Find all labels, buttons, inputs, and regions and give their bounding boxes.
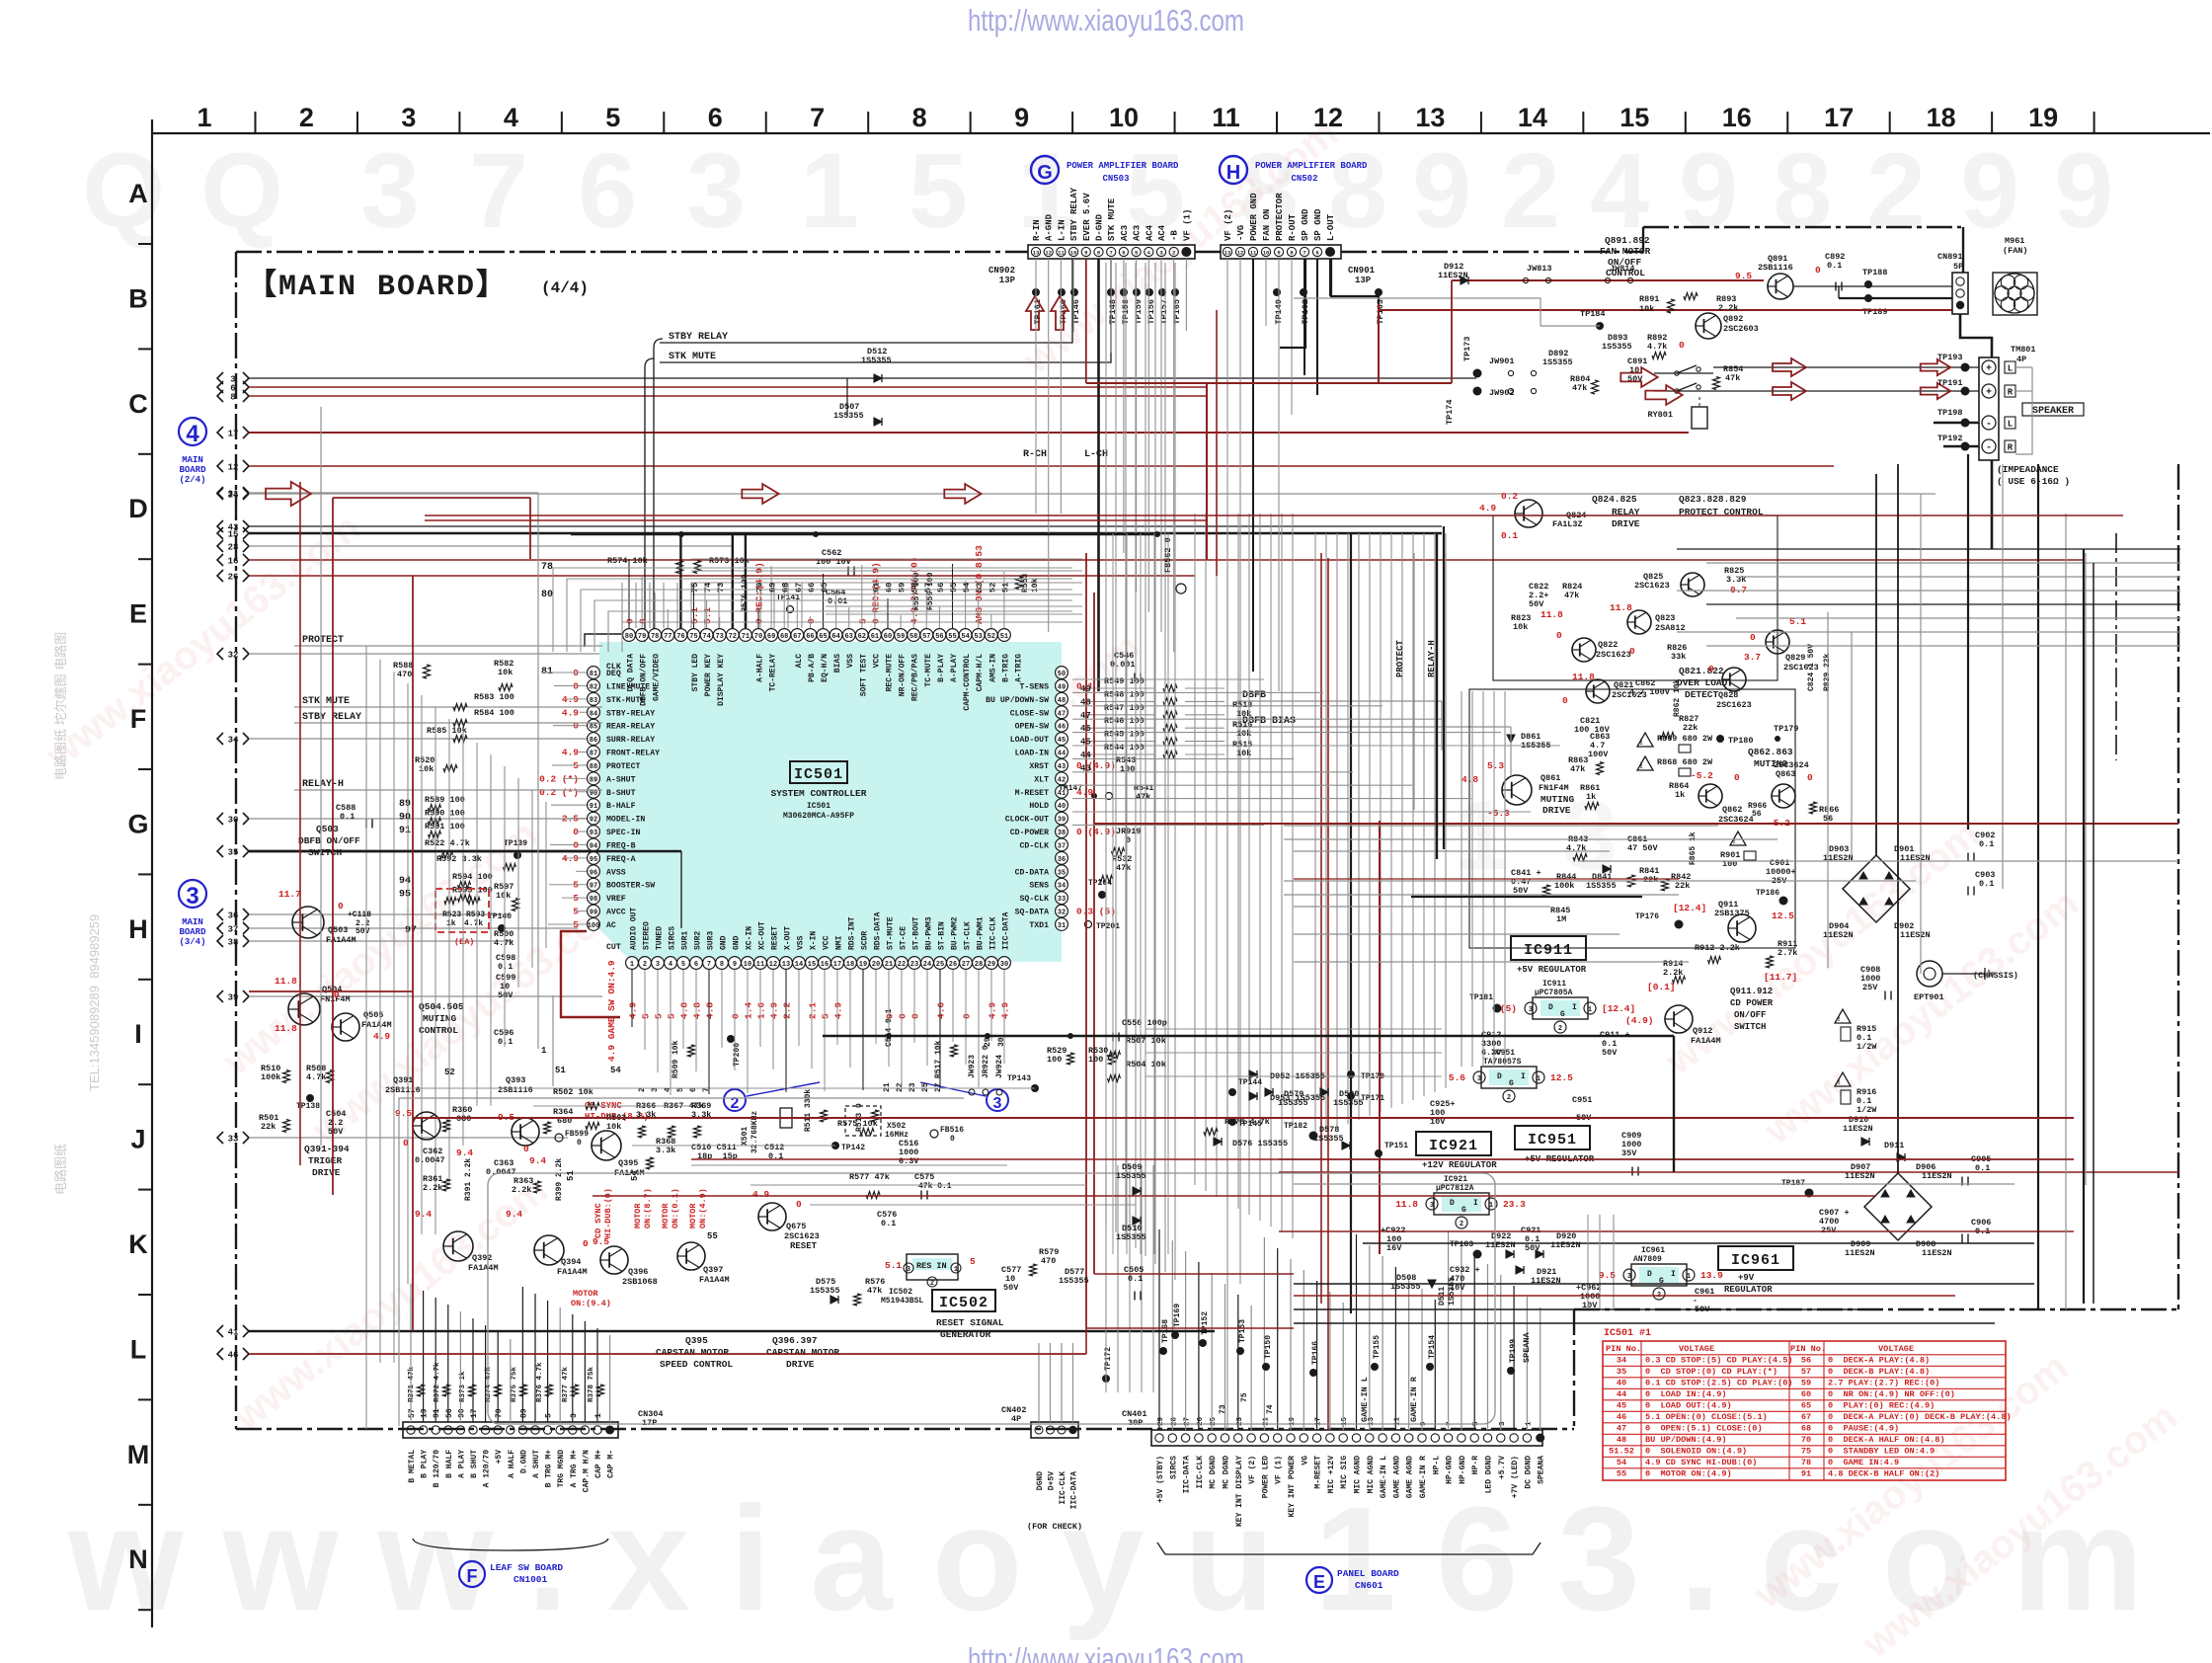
svg-text:RDS-INT: RDS-INT bbox=[848, 916, 857, 950]
svg-text:3: 3 bbox=[656, 961, 660, 969]
svg-text:SIRCS: SIRCS bbox=[1169, 1456, 1178, 1479]
svg-text:F: F bbox=[467, 1566, 478, 1586]
svg-text:6: 6 bbox=[1122, 250, 1125, 257]
svg-text:X502: X502 bbox=[887, 1122, 906, 1131]
svg-text:0: 0 bbox=[1679, 340, 1685, 351]
svg-text:91: 91 bbox=[590, 803, 597, 811]
IC911 label box bbox=[1511, 936, 1586, 960]
svg-text:50V: 50V bbox=[355, 927, 370, 936]
svg-text:STK MUTE: STK MUTE bbox=[1107, 198, 1117, 241]
svg-text:15: 15 bbox=[1619, 103, 1649, 132]
transistor Q396 2SB1068 bbox=[600, 1246, 628, 1274]
svg-text:0.1: 0.1 bbox=[498, 1037, 513, 1047]
svg-text:0.0047: 0.0047 bbox=[415, 1155, 445, 1165]
test points above CN401 bbox=[1102, 1304, 1518, 1383]
svg-text:STBY RELAY: STBY RELAY bbox=[302, 712, 361, 723]
svg-text:A: A bbox=[128, 179, 148, 208]
svg-text:B-PLAY: B-PLAY bbox=[937, 654, 946, 682]
svg-text:ON/OFF: ON/OFF bbox=[1608, 257, 1642, 268]
svg-text:38: 38 bbox=[1058, 830, 1066, 837]
svg-text:47k: 47k bbox=[1725, 373, 1740, 383]
IC501 pin circles top row 80-51 bbox=[623, 629, 1011, 642]
test points TP180 TP179 bbox=[1716, 735, 1724, 743]
svg-text:59: 59 bbox=[1801, 1379, 1811, 1388]
svg-text:97: 97 bbox=[590, 883, 597, 891]
IC951 label box bbox=[1515, 1126, 1590, 1149]
svg-text:5: 5 bbox=[545, 1413, 554, 1418]
connector CN902 pin labels bbox=[1032, 187, 1192, 241]
svg-text:0.1: 0.1 bbox=[1827, 261, 1842, 271]
svg-text:0: 0 bbox=[1708, 664, 1714, 674]
svg-text:VCC: VCC bbox=[823, 935, 831, 950]
svg-text:3.7: 3.7 bbox=[1744, 652, 1761, 663]
svg-text:9.4: 9.4 bbox=[506, 1209, 522, 1220]
svg-text:Q861: Q861 bbox=[1540, 773, 1560, 783]
svg-text:45: 45 bbox=[1617, 1401, 1626, 1411]
svg-text:-5.3: -5.3 bbox=[1487, 808, 1510, 819]
svg-text:B PLAY: B PLAY bbox=[421, 1450, 430, 1478]
svg-text:Q393: Q393 bbox=[506, 1075, 525, 1085]
svg-text:2.2k: 2.2k bbox=[423, 1183, 442, 1193]
test point TP184 bbox=[1596, 322, 1604, 330]
svg-text:100k: 100k bbox=[1554, 881, 1574, 891]
svg-text:55: 55 bbox=[948, 633, 956, 641]
svg-text:21: 21 bbox=[885, 961, 893, 969]
svg-text:TP204: TP204 bbox=[1088, 879, 1112, 888]
svg-text:11ES2N: 11ES2N bbox=[1550, 1240, 1581, 1250]
IC501 pin circles right column 50-31 bbox=[1056, 667, 1068, 931]
test point TP186 bbox=[1779, 897, 1788, 906]
svg-text:AVCC: AVCC bbox=[606, 909, 626, 917]
wire dark red corner at x418 bbox=[412, 576, 414, 991]
transistor Q825 2SC1623 bbox=[1681, 573, 1704, 596]
svg-text:2SC1623: 2SC1623 bbox=[784, 1231, 820, 1241]
svg-text:IC501 #1: IC501 #1 bbox=[1604, 1328, 1651, 1339]
main board outline right bbox=[2177, 464, 2179, 1309]
svg-text:FREQ-A: FREQ-A bbox=[606, 855, 636, 864]
svg-text:STBY RELAY: STBY RELAY bbox=[669, 332, 728, 343]
resistors R589 R590 R591 100 with pin numbers bbox=[399, 795, 465, 837]
IC921 label box bbox=[1416, 1132, 1491, 1155]
svg-text:9: 9 bbox=[1412, 130, 1471, 250]
svg-text:7: 7 bbox=[1303, 250, 1305, 257]
panel board brace bbox=[1157, 1543, 1540, 1554]
svg-text:DETECT: DETECT bbox=[1685, 689, 1719, 700]
svg-text:+7V (LED): +7V (LED) bbox=[1511, 1456, 1520, 1498]
svg-text:VSS: VSS bbox=[797, 935, 806, 950]
svg-text:MOTOR: MOTOR bbox=[633, 1203, 643, 1228]
svg-text:5: 5 bbox=[908, 130, 968, 250]
svg-text:40: 40 bbox=[1058, 803, 1066, 811]
svg-text:3: 3 bbox=[1627, 1273, 1631, 1281]
svg-text:Q392: Q392 bbox=[472, 1253, 492, 1263]
svg-text:R590 100: R590 100 bbox=[425, 808, 465, 818]
svg-text:RELAY-H: RELAY-H bbox=[302, 779, 344, 790]
svg-text:Q504.505: Q504.505 bbox=[419, 1001, 464, 1012]
jumper JW814 bbox=[1605, 277, 1610, 282]
red wire pair into CN401 zone bbox=[1094, 1273, 1294, 1275]
svg-text:22: 22 bbox=[898, 961, 906, 969]
svg-text:XC-IN: XC-IN bbox=[746, 926, 754, 950]
svg-text:IC921: IC921 bbox=[1429, 1138, 1478, 1154]
svg-text:TP144: TP144 bbox=[1238, 1078, 1262, 1087]
svg-text:CN902: CN902 bbox=[988, 266, 1015, 276]
svg-text:( USE 6-16Ω ): ( USE 6-16Ω ) bbox=[1997, 476, 2070, 487]
svg-text:0 DECK-A PLAY:(0) DECK-B PLAY: 0 DECK-A PLAY:(0) DECK-B PLAY:(4.8) bbox=[1828, 1412, 2012, 1422]
svg-text:TP188: TP188 bbox=[1862, 268, 1888, 277]
svg-text:47 50V: 47 50V bbox=[1627, 843, 1659, 853]
IC501 top red voltages bbox=[625, 545, 986, 624]
svg-text:MODEL-IN: MODEL-IN bbox=[606, 816, 645, 825]
svg-text:R862 10k: R862 10k bbox=[1673, 678, 1682, 717]
svg-text:84: 84 bbox=[590, 710, 597, 718]
svg-text:CN601: CN601 bbox=[1355, 1580, 1383, 1591]
svg-text:6: 6 bbox=[694, 961, 698, 969]
transistor Q505 FA1A4M bbox=[332, 1013, 359, 1041]
svg-text:R517 10k: R517 10k bbox=[934, 1040, 943, 1078]
svg-text:22k: 22k bbox=[1675, 881, 1690, 891]
svg-text:G: G bbox=[1461, 1206, 1466, 1215]
svg-text:78: 78 bbox=[1801, 1458, 1811, 1467]
transistor Q397 FA1A4M bbox=[677, 1242, 705, 1270]
svg-text:1: 1 bbox=[1687, 1273, 1691, 1281]
svg-text:43: 43 bbox=[1058, 763, 1066, 771]
svg-text:95: 95 bbox=[399, 889, 411, 900]
svg-text:TP199: TP199 bbox=[1509, 1339, 1518, 1363]
svg-text:4.7k: 4.7k bbox=[1647, 342, 1667, 352]
SPEAKER boxed label bbox=[2022, 403, 2084, 416]
svg-text:35: 35 bbox=[228, 848, 239, 858]
svg-text:2SB1375: 2SB1375 bbox=[1714, 909, 1750, 918]
svg-text:B: B bbox=[128, 283, 148, 313]
svg-text:5.1 OPEN:(0) CLOSE:(5.1): 5.1 OPEN:(0) CLOSE:(5.1) bbox=[1645, 1412, 1768, 1422]
svg-text:http://www.xiaoyu163.com: http://www.xiaoyu163.com bbox=[968, 3, 1244, 38]
svg-text:4: 4 bbox=[186, 421, 199, 447]
svg-text:7: 7 bbox=[1110, 250, 1113, 257]
svg-text:Q829: Q829 bbox=[1785, 653, 1805, 663]
svg-text:TP189: TP189 bbox=[1862, 307, 1888, 317]
svg-text:1S5355: 1S5355 bbox=[1602, 342, 1632, 352]
svg-text:11.8: 11.8 bbox=[1395, 1199, 1418, 1210]
svg-text:35: 35 bbox=[1617, 1367, 1626, 1377]
IC501 bottom pin labels rotated bbox=[630, 908, 1011, 950]
svg-text:64: 64 bbox=[831, 633, 839, 641]
svg-text:48: 48 bbox=[1058, 697, 1066, 705]
svg-text:CD-CLK: CD-CLK bbox=[1020, 841, 1050, 850]
svg-text:BU UP/DOWN-SW: BU UP/DOWN-SW bbox=[986, 695, 1049, 705]
svg-text:68: 68 bbox=[781, 583, 791, 593]
svg-text:(4.9): (4.9) bbox=[1625, 1015, 1654, 1026]
svg-text:90: 90 bbox=[590, 790, 597, 798]
svg-text:R869 680 2W: R869 680 2W bbox=[1657, 734, 1713, 744]
svg-text:1: 1 bbox=[800, 130, 859, 250]
svg-text:0: 0 bbox=[638, 618, 649, 624]
svg-text:47k: 47k bbox=[1572, 383, 1587, 393]
svg-text:L-CH: L-CH bbox=[1084, 449, 1108, 460]
svg-text:19: 19 bbox=[859, 961, 867, 969]
svg-text:R574 10k: R574 10k bbox=[607, 556, 648, 566]
svg-text:12: 12 bbox=[1045, 250, 1052, 257]
svg-text:CN503: CN503 bbox=[1102, 174, 1129, 184]
svg-text:5: 5 bbox=[641, 1013, 652, 1019]
main board outline bottom right horizontal bbox=[1574, 1308, 2178, 1310]
svg-text:GAME-IN L: GAME-IN L bbox=[1360, 1377, 1370, 1422]
wire dark red riser x337 bbox=[332, 498, 334, 1195]
svg-text:87: 87 bbox=[590, 751, 597, 758]
svg-text:GND: GND bbox=[720, 935, 729, 950]
svg-text:(5): (5) bbox=[1500, 1003, 1517, 1014]
svg-text:13: 13 bbox=[1033, 250, 1040, 257]
svg-text:BOOSTER-SW: BOOSTER-SW bbox=[606, 882, 655, 891]
svg-text:IC951: IC951 bbox=[1528, 1132, 1577, 1148]
svg-text:AC3: AC3 bbox=[1120, 225, 1130, 241]
svg-text:10: 10 bbox=[1109, 103, 1139, 132]
svg-text:Q823: Q823 bbox=[1655, 613, 1675, 623]
svg-text:7: 7 bbox=[707, 961, 711, 969]
svg-text:50V: 50V bbox=[1003, 1283, 1019, 1293]
svg-text:3: 3 bbox=[1430, 1202, 1434, 1210]
svg-text:8: 8 bbox=[720, 961, 724, 969]
svg-text:D: D bbox=[1647, 1270, 1652, 1279]
svg-text:0: 0 bbox=[1815, 265, 1821, 276]
svg-text:4.6: 4.6 bbox=[936, 1002, 947, 1019]
svg-text:R: R bbox=[2008, 388, 2014, 398]
svg-text:MUTING: MUTING bbox=[423, 1013, 457, 1024]
svg-text:BIAS: BIAS bbox=[833, 654, 842, 673]
badge 2 blue bbox=[724, 1089, 746, 1111]
svg-text:2SB1116: 2SB1116 bbox=[1758, 263, 1793, 273]
regulator IC921 uPC7812A bbox=[1434, 1193, 1489, 1215]
svg-text:61: 61 bbox=[871, 633, 879, 641]
svg-text:2: 2 bbox=[1558, 1025, 1562, 1033]
svg-text:TP171: TP171 bbox=[1361, 1094, 1384, 1103]
frame top horizontal line bbox=[152, 132, 2210, 134]
svg-text:VSS: VSS bbox=[846, 654, 855, 669]
svg-text:37: 37 bbox=[1058, 842, 1066, 850]
left margin faint vertical text bbox=[53, 632, 102, 1195]
faint watermark www bottom bbox=[67, 1475, 2183, 1641]
transistor Q395 FA1A4M bbox=[592, 1131, 621, 1160]
svg-text:90: 90 bbox=[399, 812, 411, 823]
svg-text:R595 100: R595 100 bbox=[452, 885, 493, 895]
svg-text:POWER GND: POWER GND bbox=[1249, 193, 1259, 241]
regulator IC951 TA78057S bbox=[1481, 1067, 1537, 1088]
wire dark red extra D rows bbox=[425, 515, 2123, 516]
svg-text:FA1A4M: FA1A4M bbox=[699, 1275, 730, 1285]
svg-text:0: 0 bbox=[583, 1238, 589, 1249]
svg-text:8: 8 bbox=[1773, 130, 1832, 250]
svg-text:4.9 CD SYNC HI-DUB:(0): 4.9 CD SYNC HI-DUB:(0) bbox=[1645, 1458, 1757, 1467]
wires above CN304 bbox=[411, 1284, 610, 1422]
svg-text:100k: 100k bbox=[261, 1072, 280, 1082]
svg-text:TP182: TP182 bbox=[1284, 1122, 1307, 1131]
svg-text:DISPLAY KEY: DISPLAY KEY bbox=[717, 654, 726, 706]
svg-text:FREQ-B: FREQ-B bbox=[606, 841, 636, 850]
svg-text:R372 4.7k: R372 4.7k bbox=[434, 1362, 441, 1402]
svg-text:Q395: Q395 bbox=[618, 1158, 638, 1168]
transistor Q828 2SC1623 bbox=[1722, 668, 1746, 691]
svg-text:25V: 25V bbox=[1862, 983, 1878, 992]
svg-text:5: 5 bbox=[605, 103, 620, 132]
svg-text:16: 16 bbox=[228, 557, 239, 567]
svg-text:37: 37 bbox=[228, 925, 239, 935]
svg-text:Q396: Q396 bbox=[628, 1267, 648, 1277]
svg-text:49: 49 bbox=[1058, 683, 1066, 691]
svg-text:34: 34 bbox=[1058, 883, 1066, 891]
svg-text:AC: AC bbox=[606, 921, 616, 930]
svg-text:A PLAY: A PLAY bbox=[457, 1450, 466, 1478]
svg-text:5.1: 5.1 bbox=[885, 1260, 902, 1271]
test point TP142 bbox=[831, 1142, 839, 1149]
bus loops above IC501 bbox=[553, 568, 1072, 652]
svg-text:TP166: TP166 bbox=[1311, 1341, 1320, 1365]
bridge rectifier D906 D907 D908 D909 11ES2N bbox=[1845, 1162, 1952, 1258]
svg-text:2SC1623: 2SC1623 bbox=[1634, 581, 1670, 591]
svg-text:GND: GND bbox=[733, 935, 742, 950]
svg-text:I: I bbox=[1521, 1072, 1526, 1081]
svg-text:100: 100 bbox=[588, 922, 600, 930]
wire bottom red long to right bbox=[412, 991, 414, 1331]
svg-text:11.8: 11.8 bbox=[275, 976, 297, 987]
main board outline top jog vertical bbox=[1642, 227, 1644, 252]
svg-text:10k: 10k bbox=[606, 1122, 621, 1132]
svg-text:IC961: IC961 bbox=[1641, 1246, 1665, 1255]
svg-text:SPEC-IN: SPEC-IN bbox=[606, 829, 640, 837]
transistor Q892 2SC2603 bbox=[1696, 313, 1721, 339]
svg-text:VOLTAGE: VOLTAGE bbox=[1679, 1344, 1714, 1354]
svg-text:2SB1068: 2SB1068 bbox=[622, 1277, 658, 1287]
svg-text:X-IN: X-IN bbox=[810, 931, 819, 950]
svg-text:13: 13 bbox=[1224, 250, 1231, 257]
svg-text:1S5355: 1S5355 bbox=[1059, 1276, 1089, 1286]
svg-text:75: 75 bbox=[690, 583, 700, 593]
svg-text:R584 100: R584 100 bbox=[474, 708, 514, 718]
svg-text:6: 6 bbox=[578, 130, 637, 250]
svg-text:9.4: 9.4 bbox=[415, 1209, 432, 1220]
warning triangle resistors R869 R868 680 2W bbox=[1637, 733, 1653, 747]
main board outline left bbox=[235, 252, 237, 1429]
svg-text:B HALF: B HALF bbox=[445, 1450, 454, 1478]
IC501 voltage table text bbox=[1606, 1344, 2012, 1479]
svg-text:R509 10k: R509 10k bbox=[671, 1040, 680, 1078]
svg-text:MIC AGND: MIC AGND bbox=[1354, 1456, 1363, 1494]
svg-text:2SC2603: 2SC2603 bbox=[1723, 324, 1759, 334]
svg-text:9.5: 9.5 bbox=[1735, 271, 1752, 281]
svg-text:VF (2): VF (2) bbox=[1224, 209, 1233, 241]
svg-text:STK MUTE: STK MUTE bbox=[302, 696, 350, 707]
svg-text:Q503: Q503 bbox=[316, 824, 339, 834]
wire center bus extra verticals bbox=[1113, 533, 1168, 1254]
svg-text:DRIVE: DRIVE bbox=[312, 1167, 341, 1178]
svg-text:59: 59 bbox=[898, 583, 908, 593]
svg-text:39: 39 bbox=[1058, 817, 1066, 825]
svg-text:11: 11 bbox=[756, 961, 764, 969]
svg-text:66: 66 bbox=[807, 583, 817, 593]
vertical bus center C bbox=[1315, 533, 1446, 1430]
test point TP188 bbox=[1864, 280, 1872, 288]
svg-text:ON:(4.9): ON:(4.9) bbox=[698, 1188, 708, 1228]
svg-text:SP GND: SP GND bbox=[1313, 208, 1323, 241]
svg-text:TEL:13459089289 894989259: TEL:13459089289 894989259 bbox=[87, 914, 102, 1091]
svg-text:TP153: TP153 bbox=[1238, 1319, 1247, 1343]
svg-text:30P: 30P bbox=[1128, 1418, 1143, 1428]
svg-text:4.9: 4.9 bbox=[373, 1031, 390, 1042]
svg-text:STBY-RELAY: STBY-RELAY bbox=[606, 709, 655, 718]
svg-text:PIN No.: PIN No. bbox=[1790, 1344, 1826, 1354]
svg-text:1: 1 bbox=[1525, 1421, 1533, 1426]
svg-text:100: 100 bbox=[1120, 764, 1135, 774]
connector CN901 pins bbox=[1223, 247, 1335, 257]
svg-text:44: 44 bbox=[1617, 1389, 1626, 1399]
svg-text:10k: 10k bbox=[1031, 578, 1040, 593]
svg-text:R376 4.7k: R376 4.7k bbox=[536, 1362, 544, 1402]
connector CN902 pins bbox=[1031, 247, 1191, 257]
transistor Q829 2SC1623 bbox=[1766, 630, 1789, 654]
svg-text:SPEANA: SPEANA bbox=[1538, 1456, 1546, 1484]
IC501 bottom red voltages bbox=[628, 1002, 1011, 1019]
svg-text:NR-ON/OFF: NR-ON/OFF bbox=[899, 654, 908, 696]
test points TP193 TP191 TP198 TP192 bbox=[1961, 363, 1970, 372]
svg-text:Q828: Q828 bbox=[1718, 690, 1738, 700]
svg-text:55: 55 bbox=[707, 1231, 718, 1241]
svg-text:+5.7V: +5.7V bbox=[1498, 1456, 1507, 1479]
svg-text:1S5355: 1S5355 bbox=[810, 1286, 840, 1296]
svg-text:D: D bbox=[1548, 1003, 1553, 1012]
connector CN304 labels below bbox=[408, 1450, 616, 1492]
svg-text:0 DECK-B PLAY:(4.8): 0 DECK-B PLAY:(4.8) bbox=[1828, 1367, 1930, 1377]
badge G power amplifier board CN503 bbox=[1031, 156, 1059, 184]
svg-text:DEQ DATA: DEQ DATA bbox=[627, 654, 636, 692]
connector CN402 4P bbox=[1031, 1422, 1078, 1438]
svg-text:D: D bbox=[128, 494, 148, 523]
svg-text:SQ-DATA: SQ-DATA bbox=[1015, 909, 1049, 917]
svg-text:2SB1116: 2SB1116 bbox=[385, 1085, 421, 1095]
svg-text:51: 51 bbox=[1000, 633, 1008, 641]
svg-text:1S5355: 1S5355 bbox=[1313, 1134, 1344, 1144]
jumper JW813 bbox=[1523, 277, 1528, 282]
svg-text:FRONT-RELAY: FRONT-RELAY bbox=[606, 750, 660, 758]
svg-text:AMS-IN: AMS-IN bbox=[988, 654, 997, 682]
svg-text:Q823.828.829: Q823.828.829 bbox=[1679, 494, 1747, 505]
svg-text:PROTECTOR: PROTECTOR bbox=[1275, 193, 1285, 241]
svg-text:0: 0 bbox=[1556, 630, 1562, 641]
svg-text:28: 28 bbox=[975, 961, 983, 969]
svg-text:Q391-394: Q391-394 bbox=[304, 1144, 350, 1154]
svg-text:M30620MCA-A95FP: M30620MCA-A95FP bbox=[783, 812, 854, 821]
svg-text:RESET: RESET bbox=[790, 1241, 818, 1251]
svg-text:4: 4 bbox=[504, 103, 518, 132]
svg-text:POWER AMPLIFIER BOARD: POWER AMPLIFIER BOARD bbox=[1255, 161, 1368, 171]
svg-text:0.1 CD STOP:(2.5) CD PLAY:(0): 0.1 CD STOP:(2.5) CD PLAY:(0) bbox=[1645, 1379, 1793, 1388]
svg-text:POWER KEY: POWER KEY bbox=[704, 654, 713, 696]
svg-text:22k: 22k bbox=[1683, 723, 1698, 733]
resistor R901 100 with triangle bbox=[1730, 831, 1746, 845]
svg-text:TP193: TP193 bbox=[1937, 353, 1963, 362]
svg-text:68: 68 bbox=[780, 633, 788, 641]
svg-text:58: 58 bbox=[909, 633, 917, 641]
svg-text:29: 29 bbox=[987, 961, 995, 969]
red arrows near speaker lines bbox=[1773, 358, 1806, 376]
wire dark red bus verticals x1222 bbox=[1206, 383, 1208, 560]
main board outline top bbox=[236, 251, 1028, 253]
svg-text:51: 51 bbox=[566, 1170, 576, 1181]
svg-text:13: 13 bbox=[1415, 103, 1445, 132]
wire thick avss line bbox=[249, 850, 681, 853]
svg-text:26: 26 bbox=[949, 961, 957, 969]
svg-text:4.9: 4.9 bbox=[833, 1002, 844, 1019]
svg-text:I: I bbox=[1572, 1003, 1577, 1012]
svg-text:OPEN-SW: OPEN-SW bbox=[1015, 723, 1049, 732]
